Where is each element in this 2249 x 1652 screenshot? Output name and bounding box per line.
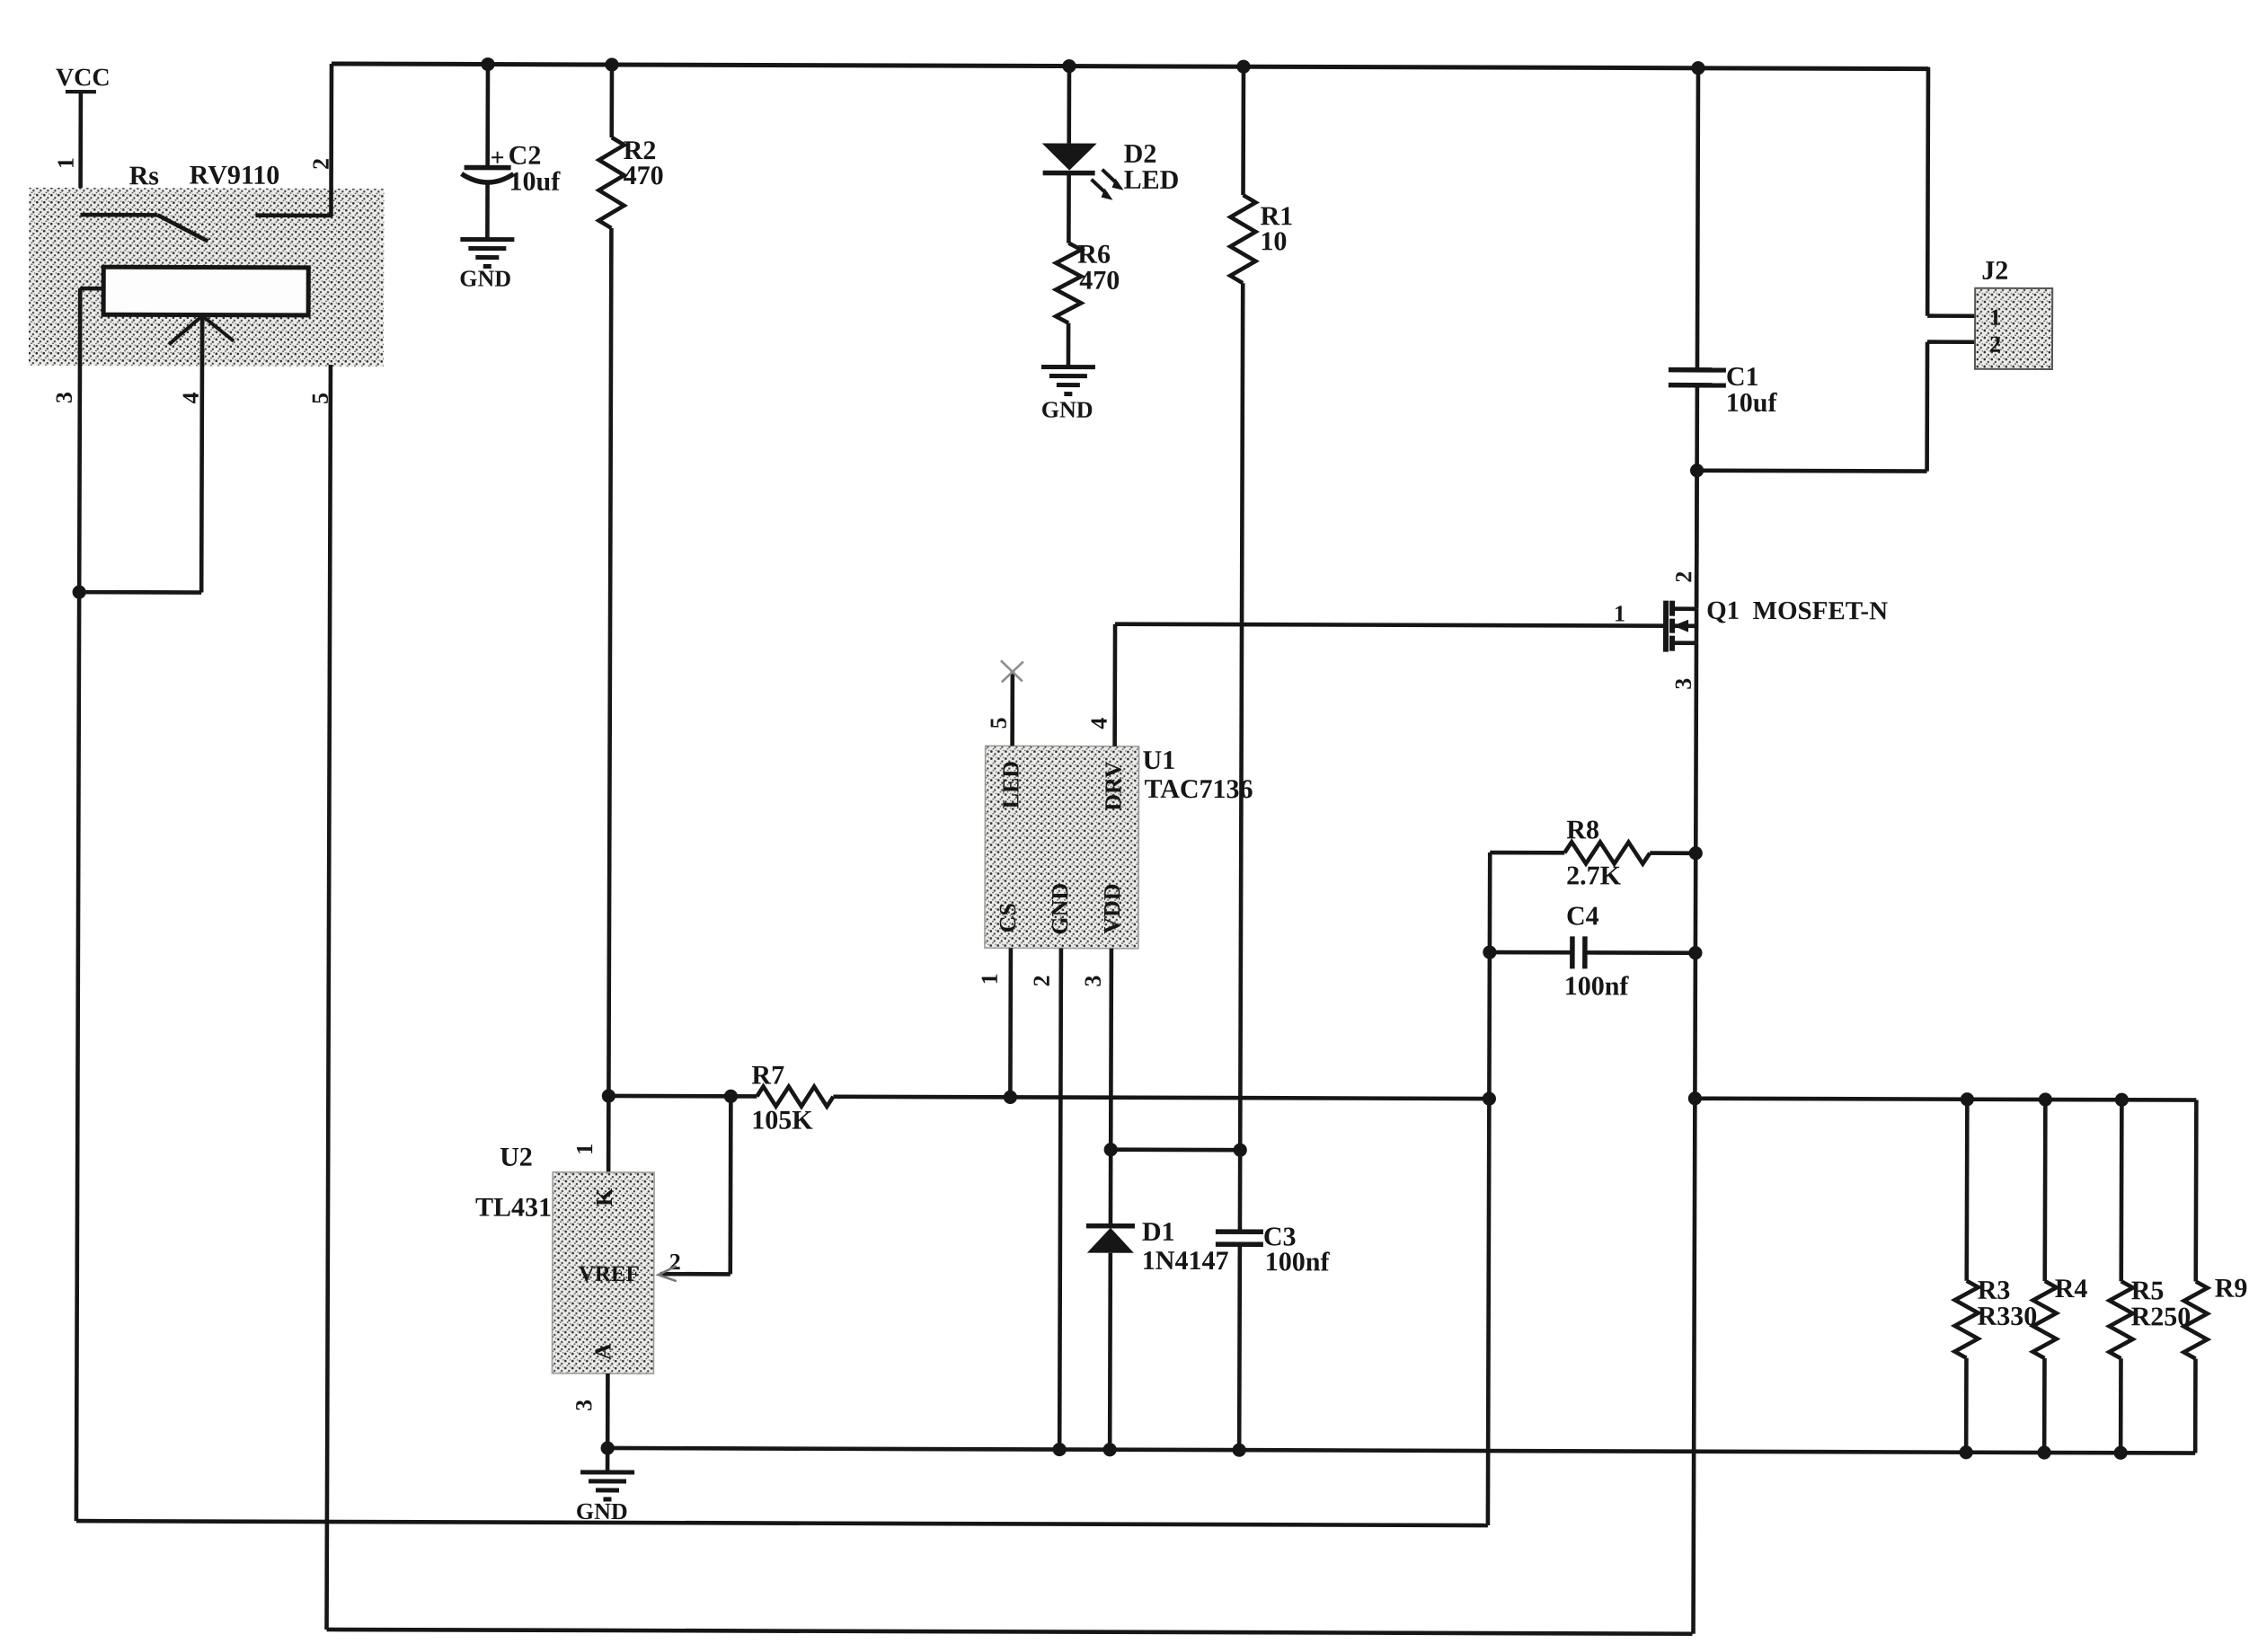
wire J2 pin2 horizontal (1927, 340, 1975, 344)
node junction ground rail / D1 (1103, 1443, 1117, 1456)
svg-text:105K: 105K (751, 1105, 813, 1135)
capacitor C1 wire down (1695, 385, 1699, 606)
wire Q1 drain from C1 (1695, 471, 1699, 609)
wire Q1 gate horizontal (1115, 624, 1666, 626)
node junction top rail at C1 (1691, 61, 1704, 75)
transistor Q1 body arrow stub (1672, 623, 1696, 628)
svg-text:GND: GND (1041, 396, 1094, 422)
resistor R7 (757, 1086, 833, 1106)
svg-text:VREF: VREF (579, 1262, 640, 1286)
node junction C4 right (1688, 946, 1702, 959)
node junction bank bottom R5 (2114, 1446, 2128, 1460)
svg-text:1: 1 (1614, 600, 1625, 626)
wire Rs pin3 vertical down left side (76, 288, 80, 1521)
node junction R7 net / U1 pin1 (1004, 1091, 1017, 1104)
svg-text:J2: J2 (1981, 256, 2008, 286)
wire bottom net A horizontal (76, 1521, 1488, 1525)
svg-text:10: 10 (1260, 226, 1287, 256)
wire source net to resistor bank (1695, 1099, 2196, 1100)
svg-text:D1: D1 (1142, 1217, 1175, 1247)
svg-text:3: 3 (571, 1400, 597, 1411)
svg-text:470: 470 (1079, 266, 1120, 296)
switch contact left inside Rs (80, 213, 157, 217)
svg-text:5: 5 (986, 717, 1012, 729)
capacitor C4 left wire (1490, 950, 1572, 955)
potentiometer body inside Rs (103, 267, 308, 315)
svg-text:TL431: TL431 (475, 1193, 552, 1223)
ground symbol below U2 (606, 1448, 610, 1472)
node junction C1 bottom / J2 (1690, 464, 1704, 477)
svg-text:VDD: VDD (1099, 883, 1125, 933)
svg-text:4: 4 (1086, 718, 1112, 729)
svg-text:1: 1 (571, 1144, 598, 1155)
svg-text:100nf: 100nf (1564, 971, 1630, 1001)
resistor R2 (609, 65, 614, 137)
capacitor C3 top plate (1216, 1229, 1263, 1234)
node junction source net / R7C4 line (1688, 1091, 1702, 1105)
node junction top rail at R1 (1236, 60, 1250, 74)
svg-text:K: K (591, 1188, 617, 1206)
wire VCC power rail (top horizontal bus) (332, 64, 1928, 69)
transistor Q1 source stub (1672, 640, 1696, 645)
svg-text:VCC: VCC (56, 64, 111, 92)
wire U1 pin4 DRV up to gate net (1112, 624, 1117, 746)
resistor R3 (1964, 1100, 1969, 1281)
svg-text:100nf: 100nf (1265, 1247, 1331, 1277)
ground symbol below R6 (1041, 365, 1095, 369)
svg-text:R8: R8 (1566, 815, 1599, 844)
wire Rs pin4 wiper down (199, 316, 205, 593)
wire top rail corner down to J2 pin1 (1926, 67, 1930, 316)
svg-text:2: 2 (1029, 975, 1055, 986)
node junction bank bottom R4 (2038, 1445, 2051, 1459)
node junction ground rail / C3 (1233, 1444, 1246, 1457)
wiper arrow of Rs (169, 315, 202, 344)
node junction bank bottom R3 (1960, 1445, 1973, 1459)
resistor R9 (2193, 1100, 2198, 1282)
wire U2 pin1 K from R7 junction (607, 1096, 611, 1172)
switch contact right inside Rs (255, 213, 331, 217)
node junction C4 left (1483, 945, 1496, 959)
svg-text:1N4147: 1N4147 (1142, 1246, 1229, 1276)
capacitor C2 wire to ground (485, 183, 490, 240)
svg-text:1: 1 (977, 973, 1003, 985)
svg-text:LED: LED (997, 761, 1023, 809)
svg-text:10uf: 10uf (1726, 388, 1778, 418)
wire U2 pin3 A down (606, 1374, 610, 1449)
svg-text:2: 2 (1989, 331, 2001, 358)
wire bottom net B horizontal (327, 1630, 1693, 1634)
svg-text:1: 1 (53, 157, 79, 169)
svg-text:RV9110: RV9110 (190, 160, 280, 190)
svg-text:3: 3 (1080, 976, 1106, 987)
capacitor C1 top plate (1669, 367, 1726, 373)
svg-text:R250: R250 (2131, 1302, 2191, 1331)
node junction top rail at R2 (605, 57, 618, 71)
transistor Q1 drain stub (1672, 606, 1696, 611)
IC U2 TL431 shaded body (552, 1172, 654, 1374)
diode D1 cathode bar (1086, 1224, 1135, 1229)
svg-text:CS: CS (995, 903, 1021, 932)
svg-text:2: 2 (1670, 571, 1696, 583)
svg-text:Rs: Rs (129, 161, 159, 190)
svg-text:3: 3 (51, 392, 77, 403)
svg-text:U1: U1 (1143, 746, 1176, 775)
svg-text:R9: R9 (2215, 1274, 2248, 1303)
wire U1 pin2 GND down to ground rail (1059, 949, 1061, 1450)
node junction R8 right on source line (1689, 846, 1703, 860)
ground symbol below C2 (460, 237, 514, 242)
wire J2 pin1 horizontal (1927, 314, 1975, 318)
wire Q1 drain-source vertical (1695, 609, 1699, 643)
svg-text:GND: GND (1047, 883, 1073, 935)
capacitor C2 top plate (465, 165, 511, 171)
capacitor C4 right plate (1582, 936, 1588, 968)
svg-text:2: 2 (669, 1249, 681, 1275)
node junction connector right (1234, 1144, 1247, 1157)
capacitor C4 right wire (1585, 950, 1696, 955)
wire U1 pin1 CS down to R7 net (1008, 948, 1013, 1097)
capacitor C2 curved plate (462, 173, 514, 182)
wire J2 loop to C1 bottom (1697, 468, 1927, 473)
resistor R4 (2042, 1100, 2047, 1281)
svg-text:+: + (491, 145, 505, 172)
svg-text:470: 470 (624, 161, 664, 190)
wire D1 anode down to ground rail (1108, 1253, 1112, 1450)
LED D2 (1067, 66, 1071, 144)
resistor R6 (1056, 243, 1081, 323)
svg-text:3: 3 (1670, 678, 1696, 690)
node junction R7 net end at C4 line (1483, 1091, 1496, 1105)
capacitor C2 wire from rail (485, 65, 490, 168)
node junction U2 pin3 / ground rail (601, 1441, 615, 1454)
svg-text:R330: R330 (1978, 1302, 2038, 1331)
wire U1 pin5 LED up with no-connect X (1010, 670, 1014, 746)
wire J2 pin2 down (1925, 342, 1929, 472)
transistor Q1 channel dashes (1669, 601, 1675, 616)
svg-text:1: 1 (1989, 305, 2001, 331)
wire Rs pot left stub (80, 287, 103, 291)
node junction pin3/pin4 (73, 585, 86, 598)
diode D1 triangle (1087, 1228, 1134, 1253)
svg-text:A: A (589, 1343, 615, 1360)
wire Rs pin5 vertical down (327, 365, 331, 1630)
capacitor C1 bottom plate (1669, 383, 1726, 388)
resistor R8 (1490, 851, 1564, 855)
svg-text:C4: C4 (1566, 901, 1599, 931)
svg-text:Q1 MOSFET-N: Q1 MOSFET-N (1706, 596, 1888, 626)
svg-text:GND: GND (576, 1498, 628, 1524)
wire Rs pin2 to top rail (329, 64, 333, 216)
capacitor C4 left plate (1570, 936, 1575, 968)
wire D1-C3 connector (1111, 1147, 1240, 1152)
svg-text:GND: GND (459, 265, 511, 291)
node junction connector left (1104, 1143, 1118, 1156)
node junction bank top R3 (1961, 1092, 1974, 1106)
wire U1 pin3 VDD down (1109, 949, 1114, 1226)
resistor R1 (1241, 66, 1245, 195)
wire Q1 source down (1694, 643, 1696, 1634)
node junction R2/U2/R7 (602, 1089, 615, 1102)
transistor Q1 gate bar (1663, 601, 1669, 652)
connector J2 shaded body (1975, 288, 2052, 369)
node junction top rail at C2 (481, 57, 494, 71)
node junction top rail at D2 (1062, 59, 1076, 73)
capacitor C3 wire to ground rail (1237, 1244, 1242, 1450)
svg-text:2.7K: 2.7K (1566, 861, 1622, 890)
wire U2 pin2 VREF with arrow (660, 1272, 730, 1277)
wire net A up to R8/C4 left (1488, 853, 1490, 1525)
capacitor C3 bottom plate (1216, 1241, 1263, 1247)
node junction ground rail / U1 pin2 (1053, 1443, 1067, 1456)
svg-text:DRV: DRV (1100, 761, 1126, 811)
node junction U2 pin2 branch (724, 1090, 738, 1103)
wire Rs pin4 horizontal to pin3 line (79, 590, 201, 595)
IC U1 TAC7136 shaded body (985, 746, 1139, 949)
wire R7 net to C4 left line (833, 1097, 1489, 1099)
resistor R5 (2119, 1100, 2123, 1281)
svg-text:TAC7136: TAC7136 (1144, 774, 1253, 804)
svg-text:10uf: 10uf (509, 167, 562, 197)
LED D2 arrows (1092, 170, 1118, 194)
wire ground rail (607, 1448, 2195, 1453)
node junction bank top R4 (2039, 1092, 2052, 1106)
node junction bank top R5 (2115, 1093, 2129, 1107)
svg-text:U2: U2 (500, 1143, 533, 1172)
svg-text:LED: LED (1124, 165, 1180, 195)
component Rs RV9110 shaded body (29, 188, 385, 367)
capacitor C1 wire from rail (1697, 68, 1698, 370)
wire R7 net from R2 line (608, 1094, 757, 1099)
svg-text:R7: R7 (751, 1060, 784, 1090)
switch blade inside Rs (157, 215, 208, 241)
svg-text:4: 4 (178, 392, 204, 403)
svg-text:R4: R4 (2055, 1274, 2088, 1303)
